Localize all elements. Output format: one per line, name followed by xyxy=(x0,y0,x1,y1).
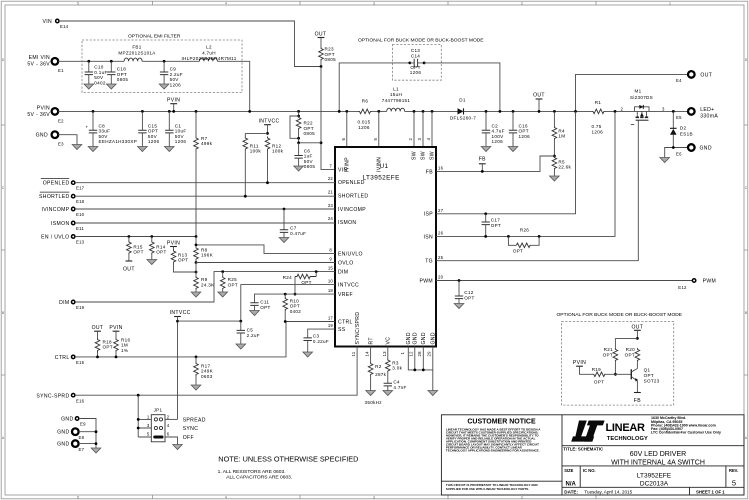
terminal E1 EMI VIN xyxy=(27,55,64,73)
ground at JP1 xyxy=(173,445,183,450)
svg-text:0805: 0805 xyxy=(325,57,337,62)
terminal E3 GND xyxy=(36,131,64,146)
svg-text:20: 20 xyxy=(438,275,444,280)
svg-text:E19: E19 xyxy=(76,305,85,310)
svg-text:1. ALL RESISTORS ARE 0603.: 1. ALL RESISTORS ARE 0603. xyxy=(218,469,286,475)
junction IVINN xyxy=(377,110,380,113)
svg-text:1: 1 xyxy=(147,414,150,419)
svg-text:0402: 0402 xyxy=(290,309,302,314)
svg-text:3: 3 xyxy=(373,2,375,6)
resistor R6 current sense xyxy=(358,99,373,130)
svg-text:350kHz: 350kHz xyxy=(365,400,383,405)
junction EMI out on rail xyxy=(248,110,251,113)
svg-text:22: 22 xyxy=(328,176,334,181)
inductor L1 xyxy=(382,87,411,112)
svg-text:R16: R16 xyxy=(121,337,130,342)
svg-text:R10: R10 xyxy=(290,298,299,303)
wire D1 to E5 output rail xyxy=(464,110,689,112)
capacitor C4 on VC xyxy=(383,380,407,396)
svg-text:13: 13 xyxy=(382,351,387,357)
svg-text:SW: SW xyxy=(412,151,418,160)
capacitor C9 xyxy=(159,60,183,89)
svg-text:0.47uF: 0.47uF xyxy=(290,231,306,236)
svg-text:2: 2 xyxy=(621,107,624,112)
svg-text:0805: 0805 xyxy=(117,77,129,82)
svg-text:14: 14 xyxy=(365,351,370,357)
svg-text:R2: R2 xyxy=(375,364,382,369)
svg-text:FB: FB xyxy=(634,398,641,404)
svg-text:LT3952EFE: LT3952EFE xyxy=(363,175,400,182)
resistor R24 DIM to VREF xyxy=(283,270,318,295)
terminal E11 ISMON xyxy=(51,221,84,231)
wire JP1 pin2 to INTVCC xyxy=(165,418,178,420)
svg-text:E5: E5 xyxy=(676,115,682,120)
svg-text:5: 5 xyxy=(732,479,736,488)
svg-text:Tuesday, April 14, 2015: Tuesday, April 14, 2015 xyxy=(584,490,632,495)
transistor Q1 xyxy=(631,368,659,393)
resistor R18 OUT to CTRL xyxy=(95,338,113,358)
wire INTVCC node to R11 xyxy=(245,132,267,134)
svg-text:EN / UVLO: EN / UVLO xyxy=(41,235,69,241)
wire VIN E14 to R23 bottom xyxy=(59,21,321,67)
svg-text:E6: E6 xyxy=(676,151,682,156)
wire SW pin2 stub xyxy=(413,111,415,147)
svg-text:OPT: OPT xyxy=(228,283,238,288)
junction C13 return on out rail xyxy=(499,110,502,113)
junction SYNC bus to JP1 xyxy=(137,394,140,397)
wire ISN pin 26 to rail right of R1 xyxy=(436,111,615,236)
svg-text:1206: 1206 xyxy=(519,134,531,139)
wire L1 to D1 xyxy=(405,110,458,112)
svg-text:SUPPLIED FOR USE WITH LINEAR T: SUPPLIED FOR USE WITH LINEAR TECHNOLOGY … xyxy=(446,487,529,491)
junction FB divider xyxy=(553,155,556,158)
wire EMI rail E1 to FB1 xyxy=(123,60,125,62)
terminal E6 GND xyxy=(676,144,712,156)
svg-text:SOT23: SOT23 xyxy=(644,378,660,383)
svg-text:E15: E15 xyxy=(76,360,85,365)
svg-text:0.75: 0.75 xyxy=(592,124,602,129)
resistor R1 current sense xyxy=(592,100,606,135)
svg-text:E18: E18 xyxy=(76,199,85,204)
svg-text:23: 23 xyxy=(328,203,334,208)
svg-text:E17: E17 xyxy=(76,186,85,191)
terminal E2 PVIN xyxy=(27,105,64,123)
resistor R19 xyxy=(592,367,607,384)
svg-text:18: 18 xyxy=(328,288,334,293)
svg-text:4: 4 xyxy=(225,496,227,500)
svg-text:LT3952EFE: LT3952EFE xyxy=(637,472,672,479)
svg-text:ISP: ISP xyxy=(424,212,434,218)
svg-text:JP1: JP1 xyxy=(154,408,163,413)
svg-text:IVINN: IVINN xyxy=(377,157,383,172)
wire C14 to OUT rail xyxy=(424,63,500,112)
svg-text:TECHNOLOGY: TECHNOLOGY xyxy=(607,436,648,442)
wire E1 into EMI filter xyxy=(58,60,124,62)
svg-text:SHORTLED: SHORTLED xyxy=(338,193,368,199)
wire rail to R22 top xyxy=(298,111,300,116)
svg-text:OPTIONAL FOR BUCK MODE OR BUCK: OPTIONAL FOR BUCK MODE OR BUCK-BOOST MOD… xyxy=(557,312,683,318)
svg-text:OPTIONAL FOR BUCK MODE OR BUCK: OPTIONAL FOR BUCK MODE OR BUCK-BOOST MOD… xyxy=(358,38,484,44)
svg-text:1M: 1M xyxy=(558,134,565,139)
capacitor C3 on SS xyxy=(303,329,335,357)
svg-text:1206: 1206 xyxy=(358,125,370,130)
svg-text:E12: E12 xyxy=(678,285,687,290)
ground at E3 xyxy=(72,145,82,150)
svg-text:E14: E14 xyxy=(60,24,69,29)
svg-text:OPT: OPT xyxy=(301,280,311,285)
svg-text:C12: C12 xyxy=(464,290,473,295)
border zone ticks top xyxy=(153,1,597,5)
resistor R23 xyxy=(319,47,336,67)
ground at IC GND pins xyxy=(428,391,438,396)
svg-text:3: 3 xyxy=(373,496,375,500)
capacitor C6 xyxy=(294,143,316,171)
svg-text:12: 12 xyxy=(408,351,413,357)
svg-text:EMI VIN: EMI VIN xyxy=(29,55,50,61)
terminal E8 GND xyxy=(57,428,84,440)
svg-text:OPT: OPT xyxy=(103,345,113,350)
PVIN net flag in Q1 box xyxy=(573,360,592,374)
wire OPENLED to pin 22 xyxy=(75,182,335,184)
resistor R3 on VC xyxy=(386,347,403,384)
svg-text:10: 10 xyxy=(328,279,334,284)
svg-text:287k: 287k xyxy=(375,372,387,377)
svg-text:PWM: PWM xyxy=(703,279,717,285)
resistor R5 xyxy=(550,156,572,181)
svg-text:+: + xyxy=(86,125,89,130)
wire EN/UVLO bus xyxy=(75,236,196,238)
resistor R26 loop on ISN xyxy=(507,228,540,254)
MOSFET M1 Si2307DS xyxy=(621,89,666,125)
svg-text:PVIN: PVIN xyxy=(167,240,180,246)
INTVCC net flag above R11 R12 xyxy=(259,118,280,135)
inductor L2 xyxy=(181,45,236,62)
PVIN net flag above R16 xyxy=(109,325,122,338)
capacitor C1 xyxy=(165,110,187,152)
svg-text:TG: TG xyxy=(425,259,433,265)
svg-text:0805: 0805 xyxy=(304,131,316,136)
svg-text:IVINCOMP: IVINCOMP xyxy=(338,207,366,213)
wire C6 node to VIN line xyxy=(299,142,321,144)
resistor R7 from PVIN rail xyxy=(194,110,213,237)
svg-text:7: 7 xyxy=(329,164,332,169)
svg-text:R13: R13 xyxy=(178,252,187,257)
svg-text:ISN: ISN xyxy=(423,234,433,240)
capacitor C17 ISP to ISN xyxy=(482,212,502,237)
svg-text:GND: GND xyxy=(36,133,48,139)
svg-text:IVINCOMP: IVINCOMP xyxy=(42,207,70,213)
svg-text:E11: E11 xyxy=(76,226,84,231)
svg-text:OPT: OPT xyxy=(644,373,654,378)
wire IVINN stub xyxy=(378,111,380,147)
resistor R4 xyxy=(552,110,565,156)
svg-text:OPT: OPT xyxy=(178,258,188,263)
svg-text:17: 17 xyxy=(328,316,334,321)
wire E9 to ground bus xyxy=(79,419,96,449)
junction SW pin2 xyxy=(413,110,416,113)
resistor R12 INTVCC to OPENLED xyxy=(265,137,283,185)
junction C5 node xyxy=(239,320,242,323)
svg-text:1: 1 xyxy=(400,352,405,355)
svg-text:OUT: OUT xyxy=(315,32,327,38)
wire GND pins bus xyxy=(408,347,433,391)
junction OVLO line xyxy=(195,261,198,264)
svg-text:IC NO.: IC NO. xyxy=(583,468,596,473)
svg-text:CTRL: CTRL xyxy=(338,319,353,325)
svg-text:330mA: 330mA xyxy=(700,114,718,120)
svg-text:GND: GND xyxy=(431,332,437,344)
svg-text:SYNC/SPRD: SYNC/SPRD xyxy=(355,312,361,345)
wire OVLO node down to R9 xyxy=(195,263,197,273)
svg-text:PVIN: PVIN xyxy=(37,105,50,111)
svg-text:R20: R20 xyxy=(626,347,635,352)
svg-text:3: 3 xyxy=(662,107,665,112)
terminal E19 DIM xyxy=(59,300,85,310)
svg-text:CTRL: CTRL xyxy=(55,355,70,361)
border zone ticks bottom xyxy=(153,495,597,499)
svg-text:E3: E3 xyxy=(58,142,64,147)
svg-text:R24: R24 xyxy=(283,275,292,280)
svg-text:C4: C4 xyxy=(393,380,400,385)
svg-text:2.2uF: 2.2uF xyxy=(247,333,260,338)
terminal E5 LED+ xyxy=(676,107,718,120)
svg-text:ISMON: ISMON xyxy=(338,220,356,226)
svg-text:GND: GND xyxy=(413,332,419,344)
svg-text:REV.: REV. xyxy=(729,468,738,473)
svg-text:100k: 100k xyxy=(272,149,284,154)
svg-text:C13: C13 xyxy=(411,48,420,53)
svg-text:TECHNOLOGY APPLICATIONS ENGINE: TECHNOLOGY APPLICATIONS ENGINEERING FOR … xyxy=(446,449,540,453)
svg-text:PVIN: PVIN xyxy=(573,360,586,366)
svg-text:1%: 1% xyxy=(121,348,128,353)
wire R6 to L1 xyxy=(372,110,387,112)
terminal E4 OUT xyxy=(676,71,712,83)
svg-text:PWM: PWM xyxy=(420,278,434,284)
capacitor C5 INTVCC xyxy=(236,321,260,349)
svg-text:OPT: OPT xyxy=(513,249,523,254)
svg-text:E10: E10 xyxy=(76,212,85,217)
border zone ticks left xyxy=(1,125,5,375)
svg-text:E8: E8 xyxy=(79,435,85,440)
capacitor C15 xyxy=(138,110,160,152)
svg-text:WITH INTERNAL 4A SWITCH: WITH INTERNAL 4A SWITCH xyxy=(611,460,705,467)
wire D2 to E6 row and ground xyxy=(665,148,688,158)
wire R19 to Q1 base xyxy=(606,373,631,375)
OUT net flag above R23 xyxy=(315,32,327,48)
svg-text:OUT: OUT xyxy=(700,72,712,78)
resistor R14 EN/UVLO to GND xyxy=(147,235,167,264)
terminal E18 SHORTLED xyxy=(39,192,85,204)
Linear Technology logo xyxy=(571,421,648,442)
terminal E16 SYNC-SPRD xyxy=(36,393,84,403)
svg-text:ALL CAPACITORS ARE 0603.: ALL CAPACITORS ARE 0603. xyxy=(226,475,292,481)
resistor R9 OVLO to GND xyxy=(191,272,215,297)
svg-text:15uH: 15uH xyxy=(390,92,402,97)
svg-text:DC2013A: DC2013A xyxy=(640,480,669,487)
svg-text:24.3K: 24.3K xyxy=(201,283,215,288)
svg-text:R14: R14 xyxy=(156,244,165,249)
wire VREF pin 18 xyxy=(255,294,336,303)
terminal E7 GND xyxy=(57,440,84,452)
junction IVINP xyxy=(345,110,348,113)
svg-text:SHORTLED: SHORTLED xyxy=(39,194,69,200)
svg-text:28: 28 xyxy=(417,351,422,357)
svg-text:OPT: OPT xyxy=(603,353,613,358)
capacitor C7 on IVINCOMP xyxy=(279,208,306,243)
wire SHORTLED to pin 21 xyxy=(75,195,335,197)
svg-text:OPT: OPT xyxy=(594,379,604,384)
wire INTVCC to C5 node xyxy=(178,320,241,322)
svg-text:OPT: OPT xyxy=(410,65,420,70)
svg-text:C14: C14 xyxy=(411,53,420,58)
junction R23 bottom / VIN wire xyxy=(320,65,323,68)
svg-text:IVINP: IVINP xyxy=(345,157,351,172)
svg-text:OPTIONAL EMI FILTER: OPTIONAL EMI FILTER xyxy=(128,34,181,40)
capacitor C12 on PWM xyxy=(454,279,474,308)
svg-text:OUT: OUT xyxy=(92,325,104,331)
wire INTVCC pin 10 xyxy=(241,285,335,322)
svg-text:5: 5 xyxy=(147,432,150,437)
svg-text:OUT: OUT xyxy=(123,267,135,273)
wire PVIN node up to C13/C14 xyxy=(339,63,410,112)
capacitor C13/C14 horizontal xyxy=(408,48,425,75)
resistor R10 VREF to CTRL xyxy=(283,293,301,323)
svg-text:LED+: LED+ xyxy=(700,107,714,113)
junction D2 xyxy=(672,110,675,113)
resistor R13 PVIN to OVLO xyxy=(171,250,197,274)
svg-text:SYNC-SPRD: SYNC-SPRD xyxy=(36,393,69,399)
wire E7 to ground bus xyxy=(79,443,96,445)
svg-text:GND: GND xyxy=(406,332,412,344)
svg-text:60V LED DRIVER: 60V LED DRIVER xyxy=(630,451,686,458)
svg-text:0805: 0805 xyxy=(304,164,316,169)
svg-text:R3: R3 xyxy=(392,360,399,365)
svg-text:D2: D2 xyxy=(680,126,687,131)
svg-text:VC: VC xyxy=(386,337,392,345)
resistor R15 EN/UVLO to OUT flag xyxy=(123,235,144,272)
terminal E13 EN/UVLO xyxy=(41,235,84,245)
svg-text:15: 15 xyxy=(328,266,334,271)
PVIN net flag on rail xyxy=(167,98,180,113)
OUT net flag above R18 xyxy=(92,325,104,338)
svg-text:5V - 36V: 5V - 36V xyxy=(27,62,50,68)
junction EN/UVLO bus end xyxy=(195,235,198,238)
svg-text:VIN: VIN xyxy=(42,19,52,25)
svg-text:R17: R17 xyxy=(201,363,210,368)
resistor R16 PVIN to CTRL xyxy=(114,337,131,358)
resistor R2 on RT xyxy=(366,347,387,396)
OUT net flag in Q1 box xyxy=(631,324,643,340)
svg-text:INTVCC: INTVCC xyxy=(259,118,280,124)
svg-text:SYNC: SYNC xyxy=(183,426,199,432)
svg-text:R25: R25 xyxy=(228,277,237,282)
ground at E6 xyxy=(660,158,670,163)
svg-text:R21: R21 xyxy=(604,347,613,352)
svg-text:27: 27 xyxy=(438,208,444,213)
svg-text:OPT: OPT xyxy=(290,304,300,309)
diode D2 xyxy=(670,111,693,147)
svg-text:4.7uH: 4.7uH xyxy=(202,51,216,56)
svg-text:0.015: 0.015 xyxy=(358,120,371,125)
wire SW pin3 stub xyxy=(422,111,424,147)
svg-text:OPT: OPT xyxy=(260,305,270,310)
svg-text:FB: FB xyxy=(479,156,486,162)
svg-text:DIM: DIM xyxy=(338,270,348,276)
svg-text:22.6k: 22.6k xyxy=(558,165,571,170)
junction ISN tap xyxy=(614,110,617,113)
ground at E7/E8/E9 xyxy=(91,448,101,453)
wire DIM to pin 15 xyxy=(75,272,335,302)
svg-text:E7: E7 xyxy=(79,447,85,452)
resistor R21 xyxy=(603,338,618,375)
svg-text:4: 4 xyxy=(426,138,431,141)
wire IVINP stub xyxy=(346,111,348,147)
diode D1 xyxy=(450,98,476,121)
resistor R17 CTRL to GND xyxy=(191,356,213,391)
svg-text:VREF: VREF xyxy=(338,292,353,298)
svg-text:ISMON: ISMON xyxy=(51,221,69,227)
svg-text:3: 3 xyxy=(417,138,422,141)
svg-text:C11: C11 xyxy=(260,299,269,304)
svg-text:OUT: OUT xyxy=(631,324,643,330)
svg-text:E16: E16 xyxy=(76,398,85,403)
terminal E17 OPENLED xyxy=(41,179,85,191)
wire VIN down to pin 7 xyxy=(321,67,335,170)
svg-text:5: 5 xyxy=(373,138,378,141)
svg-text:0603: 0603 xyxy=(201,374,213,379)
FB net flag xyxy=(479,156,486,173)
svg-text:1M: 1M xyxy=(121,343,128,348)
terminal E9 GND xyxy=(61,417,86,427)
svg-text:NOTE: UNLESS OTHERWISE SPECIFI: NOTE: UNLESS OTHERWISE SPECIFIED xyxy=(218,455,358,464)
svg-text:OPENLED: OPENLED xyxy=(338,180,365,186)
svg-text:FB1: FB1 xyxy=(132,45,141,50)
svg-text:16: 16 xyxy=(438,166,444,171)
svg-text:PVIN: PVIN xyxy=(167,98,180,104)
svg-text:4: 4 xyxy=(225,2,227,6)
wire PWM pin 20 to E12 xyxy=(436,280,692,282)
svg-text:L2: L2 xyxy=(206,45,212,50)
svg-text:9: 9 xyxy=(329,257,332,262)
svg-text:499k: 499k xyxy=(201,141,213,146)
junction rail R22 xyxy=(297,110,300,113)
svg-text:Q1: Q1 xyxy=(644,368,651,373)
svg-text:R12: R12 xyxy=(272,143,281,148)
svg-text:LINEAR: LINEAR xyxy=(606,422,646,434)
resistor R22 with bypass loop xyxy=(290,115,315,145)
svg-text:25: 25 xyxy=(438,255,444,260)
svg-text:R8: R8 xyxy=(201,247,208,252)
wire OVLO to pin 9 xyxy=(196,262,335,264)
svg-text:ES1B: ES1B xyxy=(680,132,693,137)
svg-text:5: 5 xyxy=(77,496,79,500)
svg-text:LTC Confidential-For Customer: LTC Confidential-For Customer Use Only xyxy=(651,431,721,435)
svg-text:1206: 1206 xyxy=(410,70,422,75)
svg-text:2: 2 xyxy=(167,414,170,419)
svg-text:INTVCC: INTVCC xyxy=(338,283,359,289)
svg-text:DFLS260-7: DFLS260-7 xyxy=(450,116,476,121)
svg-text:E1: E1 xyxy=(58,68,64,73)
svg-text:D1: D1 xyxy=(459,98,466,103)
svg-text:RT: RT xyxy=(368,337,374,344)
wire ISMON to pin 24 xyxy=(75,222,335,224)
svg-text:SW: SW xyxy=(430,151,436,160)
resistor R11 INTVCC to SHORTLED xyxy=(243,133,261,197)
svg-text:R19: R19 xyxy=(592,367,601,372)
svg-text:R6: R6 xyxy=(362,99,369,104)
svg-text:R9: R9 xyxy=(201,277,208,282)
junction SW pin3 xyxy=(422,110,425,113)
